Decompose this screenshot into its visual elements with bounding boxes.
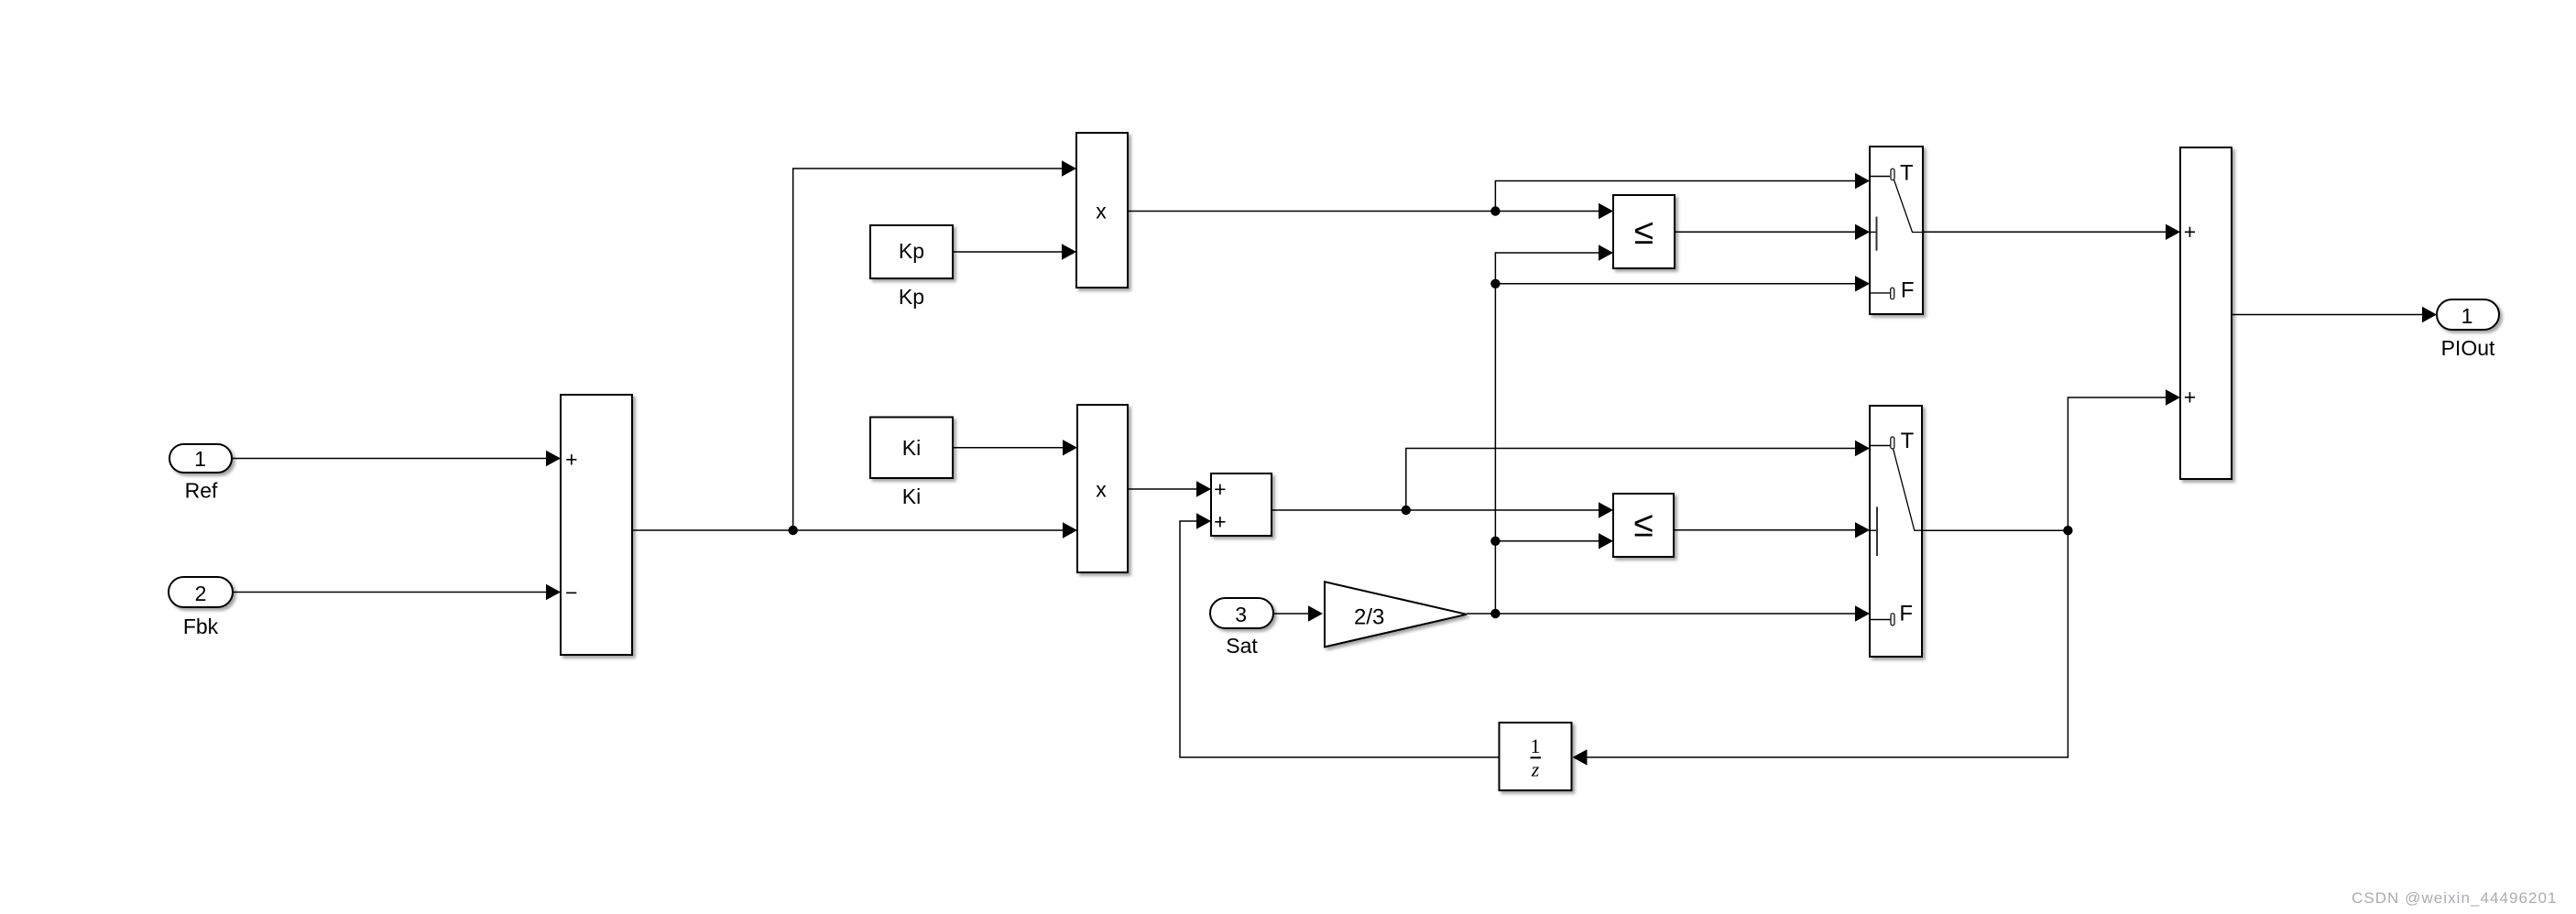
svg-text:T: T (1901, 429, 1915, 453)
svg-text:F: F (1899, 602, 1913, 626)
svg-text:≤: ≤ (1634, 212, 1654, 252)
svg-text:CSDN @weixin_44496201: CSDN @weixin_44496201 (2352, 889, 2558, 907)
svg-text:3: 3 (1235, 603, 1247, 626)
svg-text:+: + (565, 448, 577, 472)
svg-text:x: x (1096, 200, 1107, 223)
svg-text:Kp: Kp (899, 239, 924, 263)
svg-text:+: + (1214, 477, 1226, 501)
svg-text:x: x (1096, 478, 1107, 502)
svg-text:1: 1 (194, 447, 206, 471)
svg-text:z: z (1531, 758, 1540, 781)
svg-text:Sat: Sat (1226, 634, 1258, 658)
svg-text:F: F (1901, 278, 1915, 303)
svg-text:+: + (2184, 385, 2196, 408)
svg-text:−: − (565, 581, 577, 604)
svg-text:Fbk: Fbk (183, 615, 219, 638)
svg-text:Ki: Ki (902, 436, 921, 460)
svg-text:≤: ≤ (1633, 506, 1653, 545)
svg-text:Ref: Ref (185, 478, 218, 502)
svg-text:2/3: 2/3 (1354, 605, 1384, 630)
svg-text:Kp: Kp (899, 285, 924, 309)
svg-text:+: + (1214, 510, 1226, 534)
svg-text:1: 1 (2461, 304, 2473, 328)
svg-text:T: T (1900, 160, 1914, 185)
svg-text:+: + (2184, 220, 2196, 244)
svg-text:2: 2 (195, 582, 207, 605)
svg-text:PIOut: PIOut (2441, 336, 2495, 360)
svg-text:1: 1 (1531, 734, 1541, 757)
svg-text:Ki: Ki (902, 484, 921, 508)
